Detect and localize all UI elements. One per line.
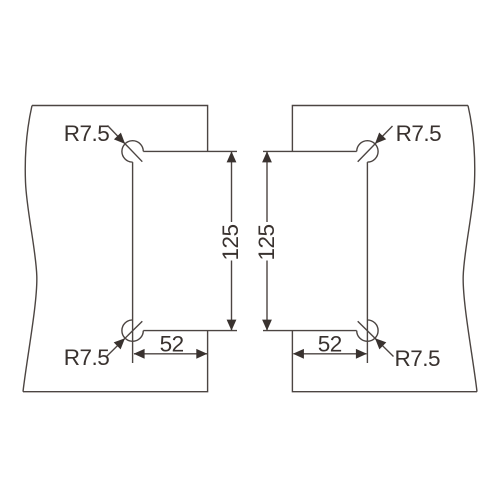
arrowhead leader top-left	[114, 133, 125, 144]
svg-text:52: 52	[318, 331, 342, 356]
dimension line 52 right	[294, 353, 367, 355]
arrowhead 125 left up	[227, 151, 237, 162]
svg-text:125: 125	[218, 224, 243, 260]
arrowhead 125 right up	[262, 151, 272, 162]
dimension line 125 right	[266, 152, 268, 330]
svg-text:R7.5: R7.5	[396, 121, 442, 146]
left panel notch inner vertical edge / extension line	[132, 162, 134, 363]
svg-text:R7.5: R7.5	[395, 346, 441, 371]
arrowhead 52 left pointing left	[134, 349, 145, 359]
right panel notch top edge / extension line	[263, 150, 357, 152]
right panel notch inner vertical edge / extension line	[366, 162, 368, 363]
svg-text:R7.5: R7.5	[64, 121, 110, 146]
right glass panel outline (top, bottom, left edges, break-line right edge)	[292, 106, 477, 392]
corner relief hole bottom-right R7.5	[357, 320, 378, 341]
arrowhead leader bottom-right	[375, 338, 386, 349]
arrowhead leader top-right	[375, 133, 386, 144]
leader line R7.5 top-right	[358, 126, 393, 162]
arrowhead 52 left pointing right	[196, 349, 207, 359]
arrowhead 52 right pointing left	[293, 349, 304, 359]
arrowhead leader bottom-left	[114, 338, 125, 349]
svg-text:125: 125	[254, 224, 279, 260]
dimension line 52 left	[134, 353, 207, 355]
svg-text:52: 52	[160, 331, 184, 356]
left panel notch top edge / extension line	[143, 150, 237, 152]
corner relief hole bottom-left R7.5	[122, 320, 143, 341]
leader line R7.5 top-left	[108, 126, 143, 162]
arrowhead 125 right down	[262, 320, 272, 331]
right panel notch bottom edge / extension line	[263, 330, 357, 332]
svg-text:R7.5: R7.5	[64, 345, 110, 370]
arrowhead 125 left down	[227, 320, 237, 331]
leader line R7.5 bottom-left	[107, 321, 143, 356]
dimension line 125 left	[231, 152, 233, 330]
corner relief hole top-right R7.5	[357, 141, 378, 162]
left panel notch bottom edge / extension line	[143, 330, 237, 332]
arrowhead 52 right pointing right	[356, 349, 367, 359]
leader line R7.5 bottom-right	[358, 321, 394, 356]
corner relief hole top-left R7.5	[122, 141, 143, 162]
left glass panel outline (break-line left edge, top, bottom, right edges)	[23, 106, 208, 392]
